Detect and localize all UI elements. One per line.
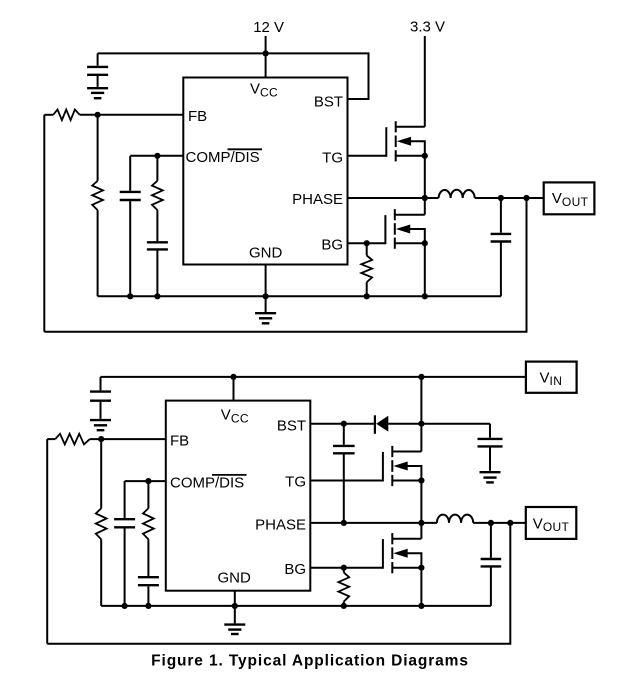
resistor R2 divider lower: [92, 181, 103, 210]
ground C1: [87, 88, 108, 98]
wire VIN rail: [101, 376, 526, 378]
resistor R8 gate pulldown: [338, 573, 349, 602]
junction VIN rail / VCC: [230, 374, 236, 380]
node 3.3V supply label: [410, 19, 445, 36]
capacitor C9 bootstrap: [333, 424, 355, 523]
diode D1 bootstrap: [375, 415, 388, 434]
wire switch node bottom: [420, 481, 422, 523]
junction FB node bottom: [98, 436, 104, 442]
wire COMP/DIS bottom: [125, 480, 166, 482]
pin label TG U1: [322, 149, 343, 166]
resistor R3 comp: [152, 181, 163, 210]
capacitor C10 output: [481, 523, 502, 606]
node 12V supply label: [253, 19, 284, 36]
svg-text:BST: BST: [277, 418, 306, 435]
wire VCC lead bottom: [233, 377, 235, 401]
pin label FB U2: [170, 432, 189, 449]
wire switch node to Q2 drain: [424, 198, 426, 215]
capacitor C5 VIN bypass: [90, 377, 111, 419]
junction VOUT node: [523, 195, 529, 201]
pin label VCC U2: [221, 407, 249, 426]
wire FB node down: [97, 115, 99, 181]
capacitor C7 comp: [138, 577, 159, 585]
caption Figure 1: [151, 653, 469, 670]
junction C2 gnd: [127, 293, 133, 299]
junction Q3 source: [418, 477, 424, 483]
junction COMP node bottom: [145, 478, 151, 484]
capacitor C2 comp: [120, 192, 141, 200]
wire phase to Q4 drain: [420, 523, 422, 539]
resistor R4 gate pulldown: [361, 256, 372, 283]
capacitor C8 VIN bypass right: [478, 424, 503, 471]
ground main top diagram: [255, 313, 276, 323]
pin label FB U1: [188, 108, 207, 125]
svg-text:FB: FB: [170, 432, 189, 449]
junction phase node bottom: [418, 520, 424, 526]
ground C5: [90, 420, 111, 430]
wire PHASE: [348, 197, 439, 199]
junction C9 / PHASE: [341, 520, 347, 526]
wire BG bottom: [310, 567, 383, 569]
wire 3.3V lead: [424, 36, 426, 127]
capacitor C1 VCC bypass: [87, 53, 108, 87]
junction C10 top: [488, 520, 494, 526]
ground C8: [480, 472, 501, 482]
box VOUT bottom diagram: [526, 507, 577, 539]
transistor Q1 high-side: [386, 121, 425, 161]
wire COMP/DIS: [130, 155, 183, 157]
pin label VCC U1: [250, 80, 278, 99]
pin label BST U1: [314, 93, 343, 110]
junction BST / C9: [341, 421, 347, 427]
junction FB node: [95, 112, 101, 118]
wire Q4 source to ground rail: [420, 568, 422, 606]
resistor R7 comp: [143, 508, 154, 539]
svg-text:TG: TG: [322, 149, 343, 166]
wire FB node down bottom: [100, 439, 102, 508]
junction GND node bottom: [232, 603, 238, 609]
IC U1: [183, 78, 347, 265]
wire C4 to ground rail: [156, 251, 158, 297]
wire COMP branch right: [156, 156, 158, 181]
wire COMP branch left: [129, 156, 131, 191]
junction Q2 gnd: [422, 293, 428, 299]
resistor R6 divider lower: [96, 508, 107, 539]
svg-text:PHASE: PHASE: [255, 516, 306, 533]
pin label GND U1: [249, 244, 283, 261]
junction Q1 source: [422, 153, 428, 159]
junction C6 gnd: [122, 603, 128, 609]
wire C2 to ground rail: [129, 201, 131, 296]
pin label PHASE U2: [255, 516, 306, 533]
svg-text:TG: TG: [285, 473, 306, 490]
svg-text:FB: FB: [188, 108, 207, 125]
wire VOUT feedback loop bottom: [47, 523, 510, 644]
wire BG node down: [366, 243, 368, 255]
wire 12V rail and BST loop: [98, 53, 369, 99]
pin label BG U1: [321, 237, 343, 254]
capacitor C3 output: [491, 198, 512, 296]
IC U2: [166, 401, 310, 591]
pin label COMP/DIS U2: [170, 474, 247, 491]
junction R4 gnd: [364, 293, 370, 299]
svg-text:GND: GND: [249, 244, 283, 261]
junction Q4 source: [418, 565, 424, 571]
wire PHASE bottom: [310, 522, 437, 524]
svg-text:12 V: 12 V: [253, 19, 284, 36]
capacitor C4 comp: [147, 242, 168, 249]
pin label PHASE U1: [292, 191, 343, 208]
svg-text:COMP/DIS: COMP/DIS: [170, 474, 244, 491]
wire COMP branch left bottom: [124, 481, 126, 518]
wire left feedback vertical: [43, 115, 45, 332]
junction BG node bottom: [341, 565, 347, 571]
box VOUT top diagram: [544, 182, 595, 214]
wire VIN to Q3 drain: [420, 377, 422, 452]
wire FB stub bottom: [47, 438, 55, 440]
wire BG node down bottom: [343, 568, 345, 573]
junction C3 top: [498, 195, 504, 201]
wire FB: [80, 114, 184, 116]
wire 12V lead: [265, 36, 267, 78]
junction Q4 gnd: [418, 603, 424, 609]
junction VOUT node bottom: [507, 520, 513, 526]
capacitor C6 comp: [114, 519, 135, 527]
box VIN: [526, 362, 577, 393]
wire FB bottom: [90, 438, 166, 440]
wire R6 to ground rail: [100, 539, 102, 606]
wire Q2 source to ground rail: [424, 243, 426, 296]
transistor Q2 low-side: [385, 209, 424, 249]
junction VIN rail / Q3: [418, 374, 424, 380]
wire VOUT feedback loop: [44, 198, 526, 332]
svg-text:BST: BST: [314, 93, 343, 110]
wire ground rail bottom diagram: [101, 605, 491, 607]
svg-text:COMP/DIS: COMP/DIS: [186, 149, 260, 166]
ground main bottom diagram: [224, 625, 245, 634]
wire L1 to VOUT box: [475, 197, 544, 199]
wire D1 anode to VIN net: [388, 423, 490, 425]
junction COMP node: [154, 153, 160, 159]
junction BG node: [364, 240, 370, 246]
wire TG: [348, 155, 387, 157]
pin label BG U2: [284, 561, 306, 578]
wire TG bottom: [310, 480, 383, 482]
pin label GND U2: [218, 569, 252, 586]
junction phase node: [422, 195, 428, 201]
resistor R1 feedback: [53, 110, 79, 121]
pin label COMP/DIS U1: [186, 149, 263, 166]
wire C6 to ground rail: [124, 528, 126, 606]
wire GND to ground: [265, 296, 267, 312]
wire C7 to ground rail: [147, 586, 149, 606]
junction 12V rail / VCC: [263, 50, 269, 56]
wire R7 to C7: [147, 539, 149, 576]
junction GND node: [263, 293, 269, 299]
svg-text:GND: GND: [218, 569, 252, 586]
transistor Q3 high-side: [383, 446, 422, 486]
wire GND lead bottom: [234, 591, 236, 606]
pin label TG U2: [285, 473, 306, 490]
wire GND to ground bottom: [234, 606, 236, 624]
transistor Q4 low-side: [383, 533, 422, 573]
pin label BST U2: [277, 418, 306, 435]
wire R8 to ground rail: [343, 602, 345, 606]
wire FB stub: [44, 114, 53, 116]
wire BG: [348, 242, 386, 244]
junction Q2 source: [422, 240, 428, 246]
resistor R5 feedback: [55, 434, 90, 445]
junction C7 gnd: [145, 603, 151, 609]
svg-text:BG: BG: [284, 561, 306, 578]
svg-text:3.3 V: 3.3 V: [410, 19, 445, 36]
wire R3 to C4: [156, 210, 158, 241]
wire R4 to ground rail: [366, 282, 368, 296]
wire COMP branch right bottom: [147, 481, 149, 508]
wire GND lead: [265, 265, 267, 297]
wire R2 to ground rail: [97, 210, 99, 296]
wire left feedback vertical bottom: [46, 439, 48, 644]
junction BST diode / VIN vertical: [418, 421, 424, 427]
svg-text:BG: BG: [321, 237, 343, 254]
junction C4 gnd: [154, 293, 160, 299]
junction R8 gnd: [341, 603, 347, 609]
wire BST: [310, 423, 374, 425]
svg-text:Figure 1. Typical Application: Figure 1. Typical Application Diagrams: [151, 653, 469, 670]
inductor L1: [439, 190, 475, 198]
wire L2 to VOUT box: [473, 522, 526, 524]
inductor L2: [437, 515, 473, 523]
wire switch node upper: [424, 156, 426, 198]
wire ground rail top diagram: [98, 295, 501, 297]
svg-text:PHASE: PHASE: [292, 191, 343, 208]
